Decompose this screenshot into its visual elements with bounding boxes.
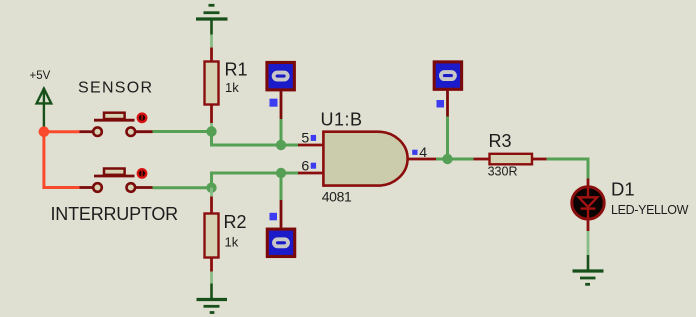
wire R2 to ground (light green) [210, 272, 213, 284]
pin 4 stub [408, 158, 437, 161]
LED D1 [572, 179, 604, 232]
wire +5V to junction (orange) [42, 128, 45, 132]
pin 5 state indicator [311, 135, 316, 141]
wire R3 to LED corner [547, 159, 589, 179]
svg-text:4081: 4081 [322, 188, 352, 204]
svg-text:+5V: +5V [30, 70, 51, 82]
node power junction [39, 126, 50, 137]
node E junction [442, 154, 452, 164]
wire SENSOR to node A (green) [153, 130, 212, 133]
wire power to SENSOR (orange) [44, 130, 80, 133]
svg-text:1k: 1k [225, 80, 239, 95]
wire INTERRUPTOR to node C (green) [153, 186, 212, 189]
resistor R2 [205, 197, 219, 272]
wire node C to R2 (light green) [210, 188, 213, 197]
resistor R1 [205, 48, 219, 124]
logic probe LP2 [267, 200, 294, 257]
ground (below R2) [197, 284, 228, 313]
wire node E up to probe 3 [446, 117, 449, 160]
pin 6 state indicator [311, 163, 316, 169]
wire node B up to probe 1 [280, 119, 283, 145]
wire node A to pin5 node [212, 132, 282, 146]
wire node D down to probe 2 [280, 173, 283, 200]
push button INTERRUPTOR [80, 168, 153, 192]
logic probe LP3 [434, 62, 461, 117]
pin 5 stub [298, 144, 323, 147]
node C junction [206, 183, 216, 193]
svg-text:U1:B: U1:B [321, 110, 363, 130]
svg-text:D1: D1 [611, 179, 635, 200]
ground (below LED) [573, 255, 604, 284]
svg-text:6: 6 [301, 158, 309, 174]
pin 4 state indicator [412, 150, 417, 155]
svg-text:SENSOR: SENSOR [78, 80, 153, 97]
power +5V symbol [37, 88, 52, 128]
wire R1 to node A (light green) [210, 123, 213, 132]
LP3 state indicator [437, 100, 445, 108]
wire LED to ground (light green) [587, 231, 590, 255]
svg-text:R3: R3 [489, 131, 512, 151]
svg-text:330R: 330R [488, 164, 518, 178]
svg-text:5: 5 [301, 131, 309, 147]
LP2 state indicator [270, 213, 278, 221]
svg-text:R2: R2 [224, 212, 247, 232]
resistor R3 [474, 154, 547, 165]
node A junction [206, 126, 216, 136]
wire node B to gate pin 5 [281, 144, 299, 147]
pin 6 stub [298, 172, 323, 175]
node D junction [276, 168, 286, 178]
op-amp gate U1:B (4081 AND) [323, 132, 407, 186]
LP1 state indicator [270, 99, 278, 107]
svg-text:4: 4 [419, 145, 427, 161]
svg-text:1k: 1k [225, 235, 239, 250]
logic probe LP1 [267, 62, 294, 119]
wire ground to R1 (light green) [210, 35, 213, 48]
svg-text:INTERRUPTOR: INTERRUPTOR [51, 204, 179, 224]
wire node D to gate pin 6 [281, 172, 299, 175]
svg-text:R1: R1 [225, 59, 248, 79]
node B junction [276, 140, 286, 150]
ground (top, above R1) [196, 5, 228, 34]
svg-text:LED-YELLOW: LED-YELLOW [611, 203, 689, 217]
push button SENSOR [80, 112, 153, 136]
wire pin4 to R3 [436, 158, 474, 161]
wire node C to pin6 node [212, 173, 282, 188]
wire power down to INTERRUPTOR (orange) [44, 132, 80, 188]
